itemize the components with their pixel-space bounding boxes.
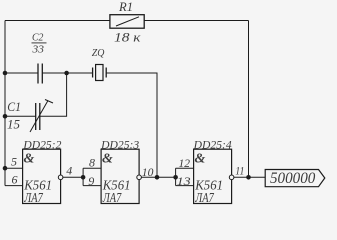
gate DD25:3 inversion bubble [137, 175, 142, 180]
svg-text:9: 9 [88, 174, 94, 188]
svg-text:R1: R1 [118, 0, 133, 14]
svg-text:ЛА7: ЛА7 [195, 191, 215, 206]
gate DD25:4 inversion bubble [229, 175, 234, 180]
svg-text:DD25:2: DD25:2 [22, 139, 61, 151]
label C2 with underline [32, 33, 47, 44]
svg-text:33: 33 [31, 45, 43, 56]
gate DD25:2 body [23, 149, 61, 203]
wire C1 left segment [5, 115, 36, 117]
svg-text:&: & [102, 151, 113, 166]
wire right vertical rail [248, 21, 250, 178]
node rail-C2 junction [3, 71, 8, 76]
wire C2 to ZQ segment [42, 72, 92, 74]
wire gate3 output pin11 to flag [234, 176, 265, 178]
svg-text:&: & [195, 151, 206, 166]
wire pin13 stub [176, 185, 194, 187]
node ZQ feedback junction [155, 175, 160, 180]
svg-text:C1: C1 [7, 99, 21, 114]
svg-text:500000: 500000 [270, 170, 315, 187]
svg-text:DD25:4: DD25:4 [193, 139, 232, 151]
wire pins 8-9 joining bar [82, 168, 84, 185]
svg-text:6: 6 [12, 173, 18, 187]
trimmer capacitor C1 [30, 100, 53, 133]
gate DD25:2 inversion bubble [58, 175, 63, 180]
node output junction [246, 175, 251, 180]
wire gate1 output pin4 [63, 176, 83, 178]
gate DD25:4 body [194, 149, 232, 203]
wire pin12 stub [176, 167, 194, 169]
node 500000 output flag [265, 170, 325, 187]
node C1-C2-ZQ junction [64, 71, 69, 76]
svg-text:DD25:3: DD25:3 [100, 139, 139, 151]
svg-text:&: & [24, 151, 35, 166]
svg-text:ЛА7: ЛА7 [24, 191, 44, 206]
resistor R1 [110, 15, 144, 29]
svg-text:10: 10 [142, 165, 154, 179]
node gate1 output junction [81, 175, 86, 180]
wire pin5 stub [5, 167, 23, 169]
wire left rail bottom to pin6 stub [5, 185, 23, 187]
node rail-C1 junction [3, 114, 8, 119]
wire pins 12-13 joining bar [175, 168, 177, 185]
crystal ZQ [93, 65, 107, 81]
wire ZQ right, corner down to node [106, 73, 157, 177]
svg-text:C2: C2 [32, 33, 44, 44]
wire C1 right segment up to oscillator net [40, 73, 67, 116]
wire pin8 stub [83, 167, 101, 169]
wire C2 left segment [5, 72, 38, 74]
svg-text:5: 5 [11, 155, 17, 169]
svg-text:8: 8 [89, 155, 95, 169]
svg-text:15: 15 [7, 117, 21, 132]
wire gate2 output pin10 [141, 176, 175, 178]
gate DD25:3 body [101, 149, 139, 203]
capacitor C2 [38, 64, 42, 84]
node rail-pin5 junction [3, 166, 8, 171]
svg-text:ZQ: ZQ [92, 47, 105, 59]
wire left vertical rail [4, 21, 6, 186]
wire pin9 stub [83, 185, 101, 187]
svg-text:4: 4 [66, 163, 72, 177]
svg-text:ЛА7: ЛА7 [102, 191, 122, 206]
svg-text:12: 12 [179, 156, 191, 170]
svg-text:11: 11 [235, 164, 244, 178]
node pins12-13 junction [173, 175, 178, 180]
wire top horizontal feedback [5, 20, 249, 22]
svg-text:18 к: 18 к [114, 31, 141, 45]
svg-text:13: 13 [177, 174, 191, 188]
